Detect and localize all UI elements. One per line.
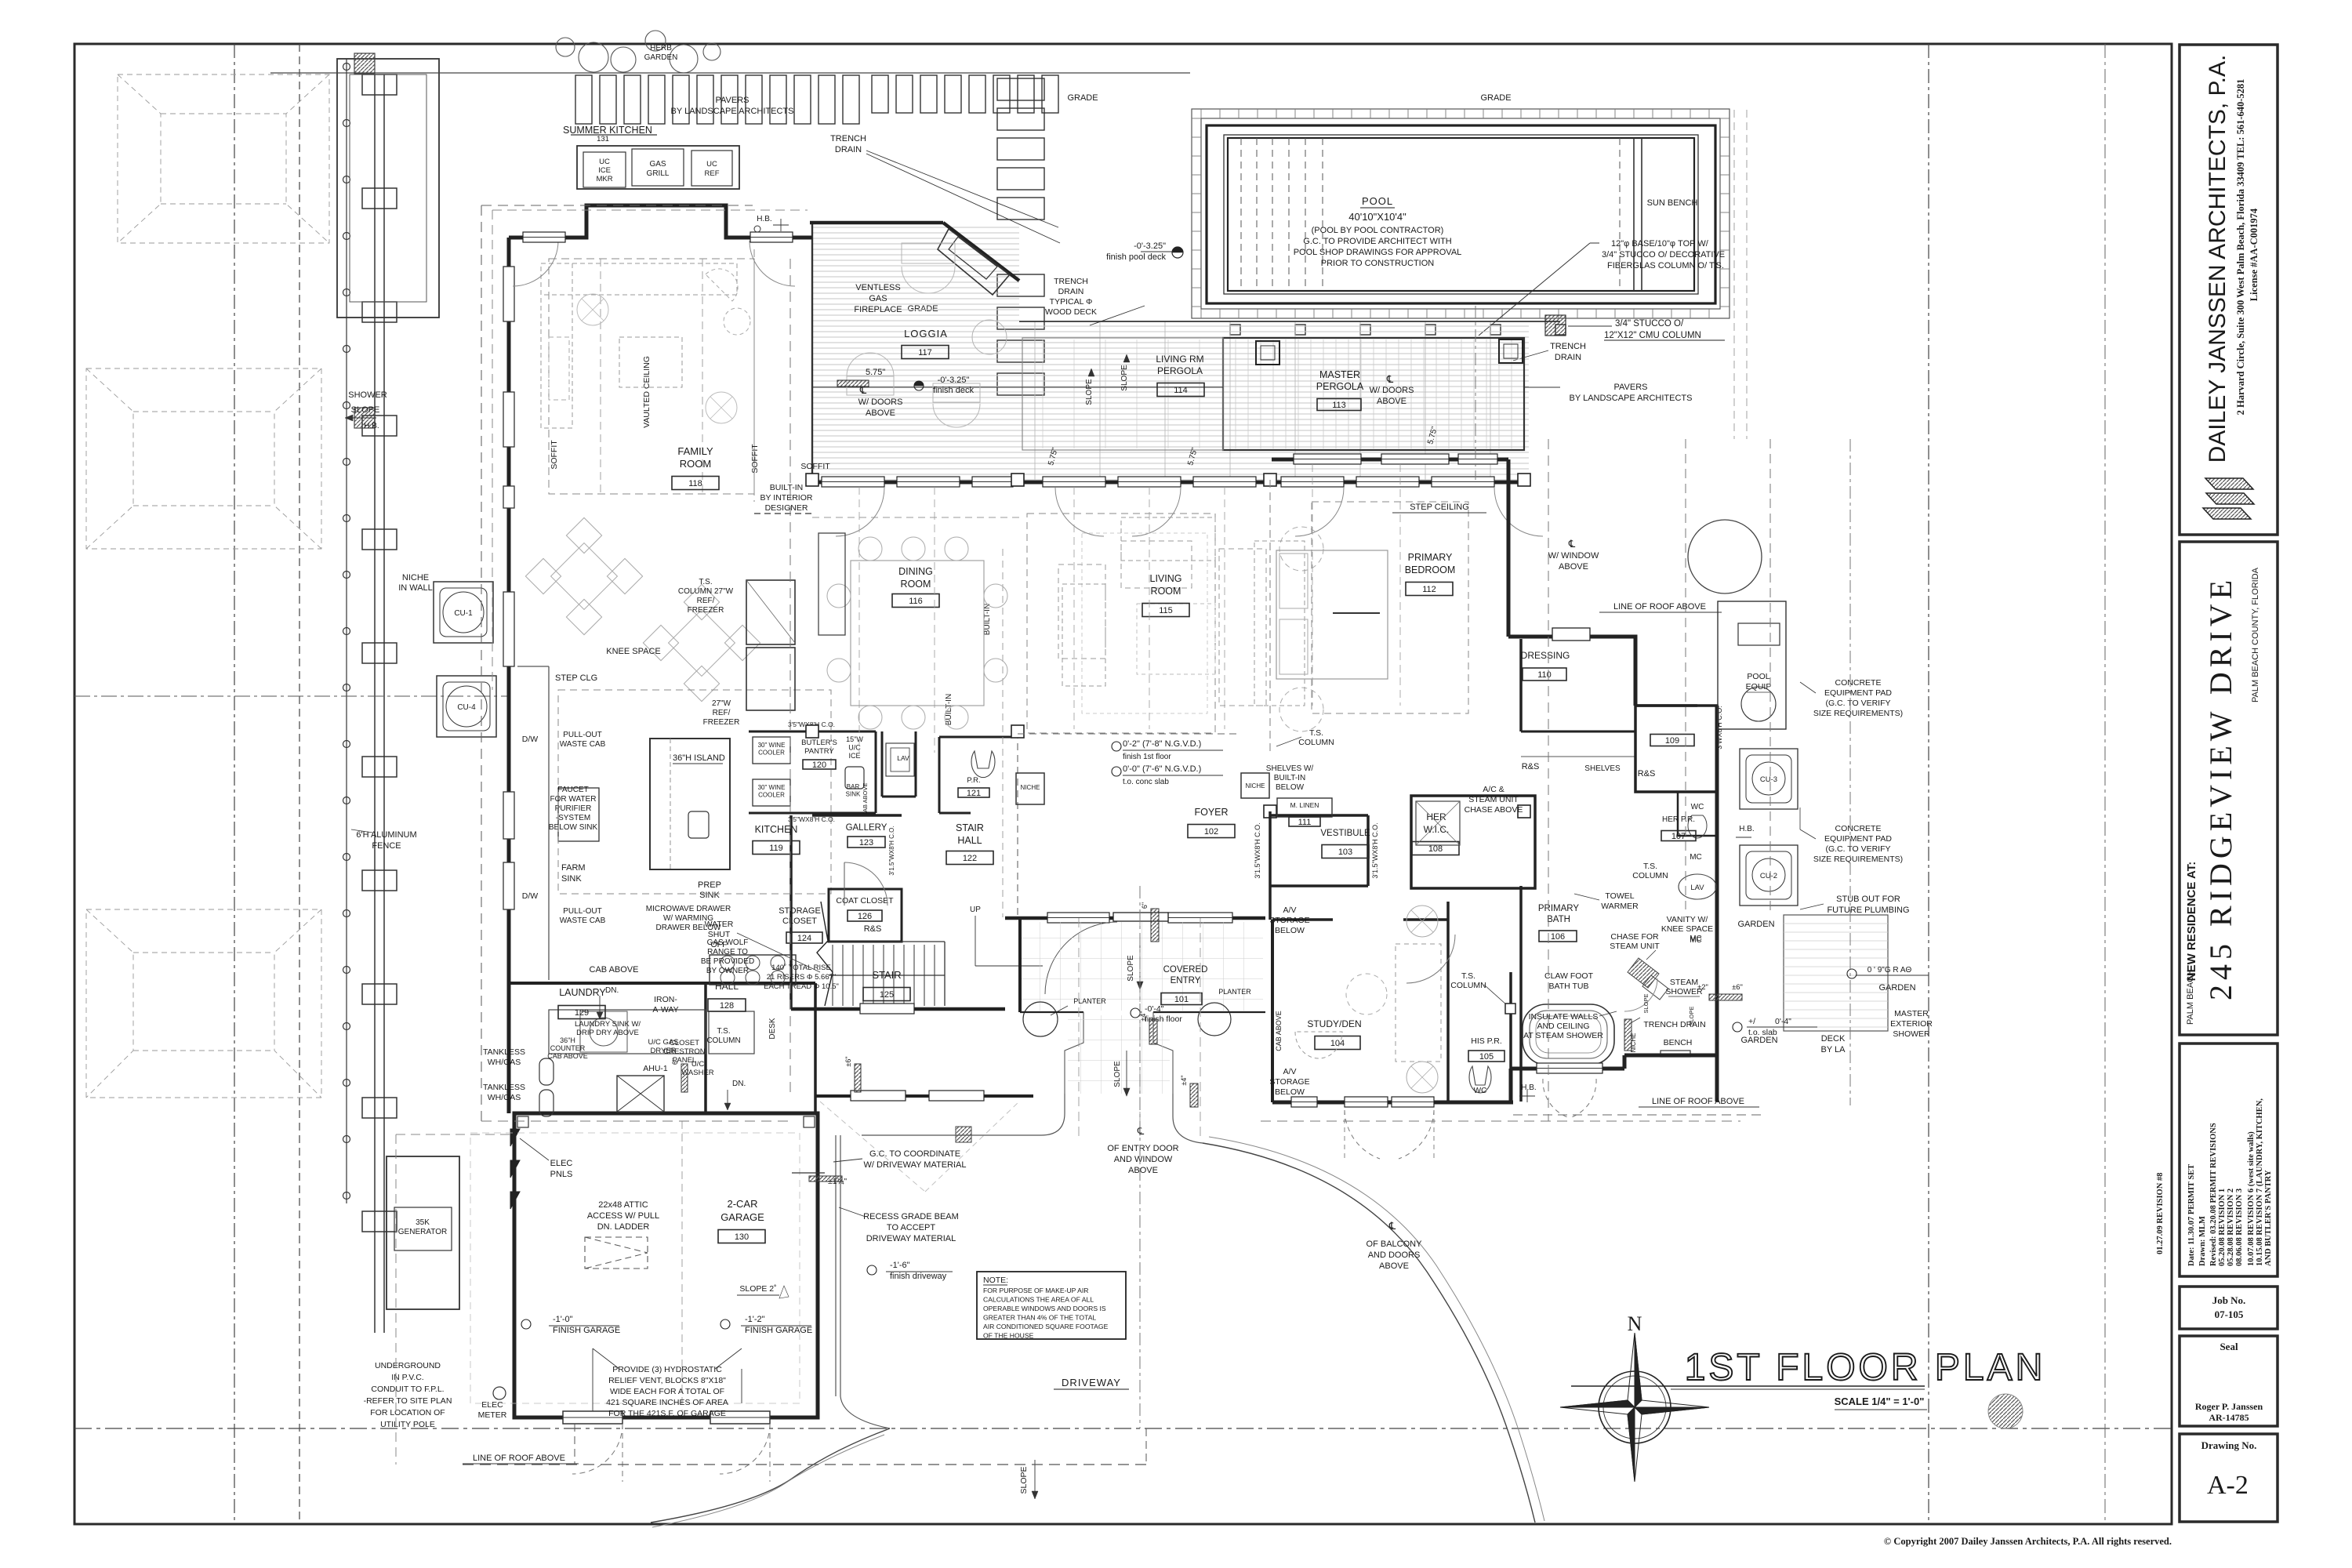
svg-text:+/: +/ [1748,1017,1755,1026]
svg-text:IN WALL: IN WALL [398,583,433,593]
svg-text:MC: MC [1690,936,1702,945]
living rm pergola band [1022,338,1223,450]
south soffit dashed foyer north [1018,733,1241,735]
pool lane guides dashed [1619,138,1621,291]
title block: project box [2180,542,2278,1035]
svg-text:U/C: U/C [691,1060,705,1069]
svg-text:PLANTER: PLANTER [1073,997,1106,1005]
title block: revisions box [2180,1044,2278,1276]
svg-text:KNEE SPACE: KNEE SPACE [606,647,661,656]
svg-text:POOL SHOP DRAWINGS FOR APPROVA: POOL SHOP DRAWINGS FOR APPROVAL [1294,248,1462,257]
svg-text:SUN BENCH: SUN BENCH [1647,198,1698,208]
svg-text:N: N [1628,1312,1642,1335]
foyer west dashed boundary [1017,731,1018,917]
svg-text:COUNTER: COUNTER [550,1044,586,1052]
svg-text:M. LINEN: M. LINEN [1290,801,1319,809]
svg-text:T.S.: T.S. [717,1027,730,1036]
laundry counter row [549,1010,706,1054]
svg-text:W/ DRIVEWAY MATERIAL: W/ DRIVEWAY MATERIAL [864,1160,967,1170]
grade line top [270,72,1190,74]
summer kitchen counter [577,146,739,189]
svg-text:PNLS: PNLS [550,1170,573,1179]
svg-text:COLUMN: COLUMN [1450,981,1486,990]
svg-text:3'1.5"WX8'H C.O.: 3'1.5"WX8'H C.O. [1254,822,1261,878]
svg-text:GRILL: GRILL [647,169,670,178]
svg-text:27"W: 27"W [712,699,731,708]
svg-text:finish 1st floor: finish 1st floor [1123,753,1171,761]
svg-text:AND CEILING: AND CEILING [1537,1022,1589,1031]
svg-text:LAUNDRY: LAUNDRY [559,987,606,998]
master wing east wall upper [1507,459,1511,637]
svg-text:ROOM: ROOM [680,458,711,470]
svg-text:±6": ±6" [844,1056,852,1066]
wood deck region fill [812,224,1019,480]
svg-text:STEAM UNIT: STEAM UNIT [1610,942,1660,951]
svg-text:CLOSET: CLOSET [782,916,817,926]
svg-text:129: 129 [575,1008,589,1018]
study south wall with windows [1272,1101,1513,1105]
svg-text:2-CAR: 2-CAR [727,1198,757,1210]
svg-text:A-WAY: A-WAY [652,1005,678,1014]
line of roof dashed central [789,259,791,1098]
svg-text:36"H ISLAND: 36"H ISLAND [673,753,725,763]
svg-text:finish deck: finish deck [933,386,974,395]
family room east soffit dashed [753,249,755,502]
svg-text:GREATER THAN 4% OF THE TO: GREATER THAN 4% OF THE TOTAL [983,1314,1096,1322]
svg-text:UNDERGROUND: UNDERGROUND [375,1361,441,1370]
loggia lounge furniture [847,243,1007,427]
svg-text:BELOW: BELOW [1275,926,1305,935]
svg-text:±6": ±6" [1732,983,1743,992]
svg-text:SOFFIT: SOFFIT [800,462,830,471]
svg-text:0'-2" (7'-8" N.G.V.D.): 0'-2" (7'-8" N.G.V.D.) [1123,739,1201,749]
svg-text:DN. LADDER: DN. LADDER [597,1222,650,1232]
svg-text:EQUIPMENT PAD: EQUIPMENT PAD [1824,688,1892,698]
note box [977,1272,1126,1339]
svg-text:(G.C. TO VERIFY: (G.C. TO VERIFY [1825,844,1890,854]
svg-text:HIS P.R.: HIS P.R. [1471,1036,1502,1046]
svg-text:TRENCH: TRENCH [830,134,866,143]
svg-text:STUB OUT FOR: STUB OUT FOR [1836,895,1900,904]
loggia west edge [811,224,813,480]
svg-text:BATH: BATH [1547,915,1570,924]
living room sofa set dashed [1254,541,1305,706]
svg-text:TANKLESS: TANKLESS [483,1083,525,1092]
svg-text:FIREPLACE: FIREPLACE [854,305,902,314]
kitchen/dining north boundary (open) [754,513,812,514]
roof dashed line garage south [463,1464,1146,1465]
svg-text:LAV: LAV [897,754,909,762]
svg-text:REF/: REF/ [697,597,715,605]
svg-text:PREP: PREP [698,880,721,890]
svg-text:102: 102 [1204,827,1218,837]
entry walk edges [1065,1012,1083,1094]
entry finish floor marker [1131,1008,1140,1018]
svg-text:COLUMN 27"W: COLUMN 27"W [678,587,734,596]
west exterior wall [507,238,511,1113]
svg-text:OPERABLE WINDOWS AND DOORS: OPERABLE WINDOWS AND DOORS IS [983,1305,1106,1312]
svg-text:AND DOORS: AND DOORS [1368,1250,1421,1260]
svg-text:finish pool deck: finish pool deck [1106,252,1166,262]
svg-text:STEP CLG: STEP CLG [555,673,597,683]
svg-text:ENTRY: ENTRY [1171,976,1201,985]
foyer south wall with entry windows [1005,916,1265,920]
attic access dashed rect [585,1237,648,1269]
kitchen south wall [509,982,815,985]
svg-text:-1'-2": -1'-2" [745,1315,765,1324]
svg-text:AND BUTLER'S PANTRY: AND BUTLER'S PANTRY [2264,1170,2273,1266]
svg-text:LAV: LAV [1690,884,1704,892]
svg-text:RELIEF VENT, BLOCKS 8"X18": RELIEF VENT, BLOCKS 8"X18" [608,1376,726,1385]
claw foot tub [1523,1004,1614,1065]
coat closet room [829,889,902,942]
svg-text:PAVERS: PAVERS [1614,383,1648,392]
svg-text:LAUNDRY SINK W/: LAUNDRY SINK W/ [575,1020,641,1029]
svg-text:CAB ABOVE: CAB ABOVE [1275,1011,1283,1051]
svg-text:-0'-3.25": -0'-3.25" [938,376,970,385]
svg-text:ICE: ICE [848,752,860,760]
grade leader center [1090,306,1145,325]
svg-text:113: 113 [1332,401,1346,410]
svg-text:UC: UC [706,160,717,169]
svg-text:CHASE FOR: CHASE FOR [1610,932,1659,942]
family room sectional sofa dashed [541,263,737,295]
svg-text:EXTERIOR: EXTERIOR [1890,1019,1933,1029]
svg-text:CU-4: CU-4 [457,703,476,712]
svg-text:PRIMARY: PRIMARY [1408,552,1453,563]
svg-text:GARAGE: GARAGE [720,1211,764,1223]
range cooktop [710,955,796,985]
svg-text:DESK: DESK [768,1018,777,1040]
svg-text:PERGOLA: PERGOLA [1157,365,1203,376]
svg-text:STORAGE: STORAGE [779,906,821,916]
svg-text:35K: 35K [416,1218,430,1227]
svg-text:BELOW: BELOW [1275,1087,1305,1097]
svg-text:SLOPE 2˚: SLOPE 2˚ [739,1284,776,1294]
svg-text:LINE OF ROOF ABOVE: LINE OF ROOF ABOVE [1652,1097,1744,1106]
master pergola post east [1499,339,1523,363]
svg-text:BENCH: BENCH [1664,1038,1693,1047]
title block: drawing number box [2180,1434,2278,1522]
svg-text:140˚ TOTAL RISE: 140˚ TOTAL RISE [771,964,831,972]
svg-text:BY LANDSCAPE ARCHITECTS: BY LANDSCAPE ARCHITECTS [671,107,794,116]
svg-text:A-2: A-2 [2207,1471,2249,1500]
steam unit diagonal hatched [1628,958,1659,988]
master pergola frame [1223,338,1524,450]
svg-text:DRAIN: DRAIN [1058,287,1084,296]
window centerline dashes vertical [858,487,860,753]
svg-text:ICE: ICE [598,166,611,175]
master pergola joists [1235,339,1236,448]
svg-text:114: 114 [1174,386,1188,395]
dining west built-in [818,533,845,635]
svg-text:12"φ BASE/10"φ TOP W/: 12"φ BASE/10"φ TOP W/ [1611,239,1709,249]
svg-text:AHU-1: AHU-1 [643,1064,668,1073]
svg-text:TRENCH DRAIN: TRENCH DRAIN [1643,1020,1705,1029]
svg-text:BELOW SINK: BELOW SINK [549,823,598,832]
foyer east wall [1269,811,1272,886]
svg-text:116: 116 [909,597,923,606]
svg-text:104: 104 [1330,1039,1345,1048]
svg-text:123: 123 [859,838,873,848]
svg-text:124: 124 [797,934,811,943]
svg-text:DN.: DN. [732,1080,746,1088]
svg-text:TO ACCEPT: TO ACCEPT [887,1223,935,1232]
kitchen island [650,739,730,869]
svg-text:15"W: 15"W [846,735,863,743]
centerline horizontal west [74,695,508,697]
loggia north wall [810,221,943,225]
drain box upper left [354,53,375,74]
title underline [1571,1385,1925,1387]
svg-text:COLUMN: COLUMN [706,1036,740,1045]
svg-text:120: 120 [812,760,826,770]
svg-text:BY OWNER: BY OWNER [706,967,749,975]
title block: seal box [2180,1336,2278,1426]
svg-text:30" WINE: 30" WINE [758,784,786,791]
svg-text:Revised: 03.20.08 PERMIT REVIS: Revised: 03.20.08 PERMIT REVISIONS [2209,1123,2218,1266]
svg-text:109: 109 [1665,736,1679,746]
svg-text:RECESS GRADE BEAM: RECESS GRADE BEAM [863,1212,959,1221]
site line horizontal lower (dash-dot long) [74,1428,2172,1429]
compass rose [1599,1371,1671,1443]
svg-text:BY LANDSCAPE ARCHITECTS: BY LANDSCAPE ARCHITECTS [1570,394,1693,403]
svg-text:130: 130 [735,1232,749,1242]
svg-text:0'-4": 0'-4" [1775,1017,1791,1026]
svg-text:VENTLESS: VENTLESS [855,283,900,292]
svg-text:BEDROOM: BEDROOM [1405,564,1456,575]
svg-text:HERB: HERB [650,44,672,53]
pool deck pergola posts [1230,325,1240,335]
stair hall walls [789,815,793,1009]
svg-text:SUMMER KITCHEN: SUMMER KITCHEN [563,125,652,136]
prep sink [688,811,709,838]
svg-text:IRON-: IRON- [654,995,677,1004]
svg-text:License #AA-C001974: License #AA-C001974 [2249,208,2259,301]
study door swing dashed south [1345,1110,1380,1159]
svg-text:SLOPE: SLOPE [1085,379,1094,405]
svg-text:FIBERGLAS COLUMN O/ T.S.: FIBERGLAS COLUMN O/ T.S. [1607,261,1724,270]
svg-text:finish driveway: finish driveway [890,1272,947,1281]
vestibule walls [1270,814,1368,817]
svg-text:-1'-6": -1'-6" [890,1261,910,1270]
svg-text:FOYER: FOYER [1194,807,1228,818]
svg-text:HALL: HALL [957,835,982,846]
svg-text:05.20.08 REVISION 1: 05.20.08 REVISION 1 [2218,1189,2227,1266]
stair hall south wall [791,1007,1005,1011]
label ELEC METER [493,1387,506,1399]
svg-text:DRAIN: DRAIN [835,145,862,154]
svg-text:117: 117 [918,348,932,358]
svg-text:LINE OF ROOF ABOVE: LINE OF ROOF ABOVE [1613,602,1706,612]
porch drain hatched square [956,1127,971,1142]
svg-text:GAS: GAS [869,294,887,303]
svg-text:GALLERY: GALLERY [846,823,887,833]
fireplace diagonal wall [943,223,1019,281]
svg-text:BUILT-IN: BUILT-IN [945,694,953,725]
svg-text:SCALE 1/4" = 1'-0": SCALE 1/4" = 1'-0" [1835,1396,1925,1407]
svg-text:WASTE CAB: WASTE CAB [560,740,606,749]
farm sink [558,788,599,841]
bath door swing dashed south [1543,1079,1570,1118]
svg-text:BELOW: BELOW [1276,783,1305,792]
svg-text:TRENCH: TRENCH [1550,342,1586,351]
svg-text:DRIVEWAY MATERIAL: DRIVEWAY MATERIAL [866,1234,956,1243]
svg-text:BUILT-IN: BUILT-IN [983,604,992,635]
svg-text:EACH TREAD Φ 10.5": EACH TREAD Φ 10.5" [764,982,839,991]
svg-text:KNEE SPACE: KNEE SPACE [1661,924,1713,934]
condenser CU-1 [434,582,493,643]
svg-text:HER P.R.: HER P.R. [1662,815,1695,824]
columns T.S. small squares [806,474,818,486]
svg-text:℄: ℄ [1388,1220,1396,1232]
svg-text:WOOD DECK: WOOD DECK [1045,307,1097,317]
AHU unit [617,1076,664,1112]
svg-text:22x48 ATTIC: 22x48 ATTIC [598,1200,648,1210]
svg-text:W/ WINDOW: W/ WINDOW [1548,551,1599,561]
bath south wall with window [1511,1067,1624,1071]
covered entry side walls [1018,918,1022,1012]
svg-text:ABOVE: ABOVE [866,408,895,418]
kitchen west counters [548,666,550,980]
master wing step walls to dressing [1508,635,1552,639]
title block: architect info box [2180,45,2278,535]
tree circle large [1688,520,1762,593]
svg-text:Drawing No.: Drawing No. [2201,1439,2257,1451]
svg-text:A/V: A/V [1283,1067,1297,1076]
family room chairs [706,269,738,301]
svg-text:t.o. conc slab: t.o. conc slab [1123,778,1169,786]
pool wall inner [1224,135,1698,294]
svg-text:-1'-0": -1'-0" [553,1315,573,1324]
svg-text:DRIVEWAY: DRIVEWAY [1062,1377,1121,1388]
ac steam chase [1416,801,1460,845]
svg-text:CAB ABOVE: CAB ABOVE [590,965,639,975]
dressing room [1635,704,1697,707]
stub walls at hall [681,1064,688,1092]
svg-text:08.06.08 REVISION 3: 08.06.08 REVISION 3 [2235,1189,2244,1266]
svg-text:SLOPE: SLOPE [1120,365,1129,391]
svg-text:SHUT: SHUT [708,930,731,939]
svg-text:Drawn: MLM: Drawn: MLM [2198,1216,2207,1266]
svg-text:T.S.: T.S. [1461,971,1475,981]
svg-text:FOR PURPOSE OF MAKE-UP AIR: FOR PURPOSE OF MAKE-UP AIR [983,1287,1089,1294]
family north windows [523,232,565,242]
svg-text:PERGOLA: PERGOLA [1316,381,1364,392]
svg-text:BE PROVIDED: BE PROVIDED [701,957,754,966]
svg-text:111: 111 [1298,818,1312,827]
her wic room [1411,796,1535,888]
svg-text:W/ DOORS: W/ DOORS [858,397,903,407]
family room coffee table [619,337,682,387]
svg-text:SINK: SINK [699,891,720,900]
svg-text:±4": ±4" [1180,1075,1188,1085]
svg-text:G.C. TO COORDINATE: G.C. TO COORDINATE [869,1149,960,1159]
svg-text:FOR LOCATION OF: FOR LOCATION OF [370,1408,445,1417]
fireplace unit [938,229,1010,295]
svg-text:107: 107 [1671,832,1686,841]
svg-text:-0'-3.25": -0'-3.25" [1134,241,1166,251]
garage walls [514,1113,818,1417]
to slab marker [1733,1022,1742,1032]
door swing arcs into dining/living [836,488,884,536]
svg-text:05.28.08 REVISION 2: 05.28.08 REVISION 2 [2227,1189,2235,1266]
entry south edge [1020,1011,1083,1013]
svg-text:COLUMN: COLUMN [1298,738,1334,747]
svg-text:Job No.: Job No. [2212,1294,2246,1306]
planters at entry [1023,1002,1058,1036]
svg-text:DECK: DECK [1821,1034,1846,1044]
svg-text:STORAGE: STORAGE [1269,916,1309,925]
architect logo parallelogram 3 [2203,508,2251,519]
west wall windows [503,267,514,321]
svg-text:ROOM: ROOM [1151,586,1181,597]
svg-text:BY INTERIOR: BY INTERIOR [760,493,813,503]
stair break line [817,902,833,1006]
svg-text:PURIFIER: PURIFIER [555,804,592,813]
svg-text:421 SQUARE INCHES OF AREA: 421 SQUARE INCHES OF AREA [606,1398,728,1407]
hall/entry stub hatched [1149,1019,1157,1044]
svg-text:MICROWAVE DRAWER: MICROWAVE DRAWER [646,905,731,913]
svg-text:STORAGE: STORAGE [1269,1077,1309,1087]
svg-text:H.B.: H.B. [1739,825,1754,833]
svg-text:1ST FLOOR PLAN: 1ST FLOOR PLAN [1685,1347,2046,1388]
svg-text:MKR: MKR [596,175,612,183]
bed [1276,550,1388,679]
svg-text:MASTER: MASTER [1894,1009,1929,1018]
pool deck east dashed verticals [1733,110,1735,439]
svg-text:DN.: DN. [605,986,619,995]
svg-text:SIZE REQUIREMENTS): SIZE REQUIREMENTS) [1813,855,1903,864]
svg-text:122: 122 [963,854,977,863]
pool water edge [1228,138,1694,291]
svg-text:ACCESS W/ PULL: ACCESS W/ PULL [587,1211,659,1221]
svg-text:GAS: GAS [649,160,666,169]
svg-text:UTILITY POLE: UTILITY POLE [380,1420,435,1429]
svg-text:10.15.08 REVISION 7 (LAUNDRY,: 10.15.08 REVISION 7 (LAUNDRY, KITCHEN, [2256,1098,2264,1266]
line of roof dashed main west [481,205,482,1121]
svg-text:STEAM UNIT: STEAM UNIT [1468,795,1519,804]
driveway entry walk edges [862,1094,1065,1135]
master west boundary open columns [1269,480,1271,751]
garage interior column pads [517,1116,528,1127]
living room step ceiling dashed [1027,514,1215,733]
svg-text:PALM BEACH: PALM BEACH [2186,970,2195,1025]
svg-text:±2": ±2" [1697,983,1708,992]
svg-text:AND WINDOW: AND WINDOW [1114,1155,1173,1164]
svg-text:CAB ABOVE: CAB ABOVE [862,783,869,817]
svg-text:LOGGIA: LOGGIA [904,328,948,339]
deck joist verticals [1034,321,1036,480]
svg-text:FENCE: FENCE [372,841,401,851]
pool wall outer [1207,125,1715,303]
pr room west of foyer [938,737,941,813]
svg-text:ABOVE: ABOVE [1559,562,1588,572]
svg-text:126: 126 [858,912,872,921]
svg-text:℄: ℄ [1568,538,1576,550]
family wing interior dashed ceiling [549,259,754,494]
svg-text:STUDY/DEN: STUDY/DEN [1307,1018,1361,1029]
svg-text:℄: ℄ [1386,373,1394,385]
svg-text:POOL: POOL [1362,195,1393,207]
svg-text:DRYER: DRYER [650,1047,676,1055]
garage apron edge [835,1135,837,1396]
svg-text:ABOVE: ABOVE [1379,1261,1409,1271]
svg-text:3/4" STUCCO O/: 3/4" STUCCO O/ [1615,319,1684,328]
svg-text:119: 119 [769,844,783,853]
centerline of doors above - loggia [812,387,1223,388]
master north windows [1294,454,1361,464]
